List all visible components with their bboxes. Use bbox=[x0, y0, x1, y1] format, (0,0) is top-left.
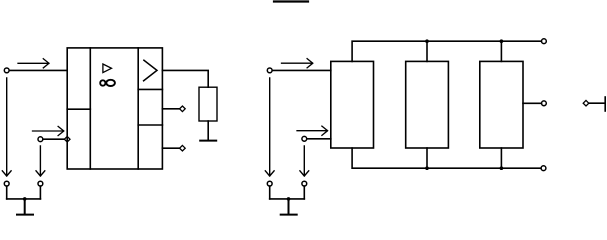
wire top bus bbox=[352, 41, 541, 61]
wire IN2' to T1 bbox=[307, 138, 331, 140]
wire ground bus left bbox=[7, 198, 41, 200]
wire GND2a down bbox=[269, 186, 271, 199]
junction ground left bbox=[23, 197, 27, 201]
capacitor plate (cropped) bbox=[604, 97, 606, 111]
transformer block T2 bbox=[406, 61, 449, 148]
terminal GND1b bbox=[38, 181, 43, 186]
amplifier triangle symbol bbox=[103, 64, 112, 73]
ground symbol R1 bbox=[200, 140, 216, 142]
infinite gain symbol bbox=[100, 80, 115, 86]
wire T3 top drop bbox=[500, 41, 502, 61]
junction T3 bottom bbox=[500, 166, 504, 170]
U1 output column split 1 bbox=[138, 88, 162, 90]
wire U1 out1 to R1 bbox=[162, 70, 208, 87]
wire GND1b down bbox=[39, 186, 41, 199]
junction T2 bottom bbox=[425, 166, 429, 170]
wire IN1' to T1 bbox=[272, 69, 331, 71]
pin diamond U1 input 2 bbox=[64, 136, 70, 142]
terminal GND1a bbox=[4, 181, 9, 186]
wire GND2b down bbox=[303, 186, 305, 199]
U1 divider input column bbox=[89, 48, 91, 169]
wire bottom bus bbox=[352, 148, 541, 168]
comparator chevron symbol bbox=[144, 60, 157, 81]
junction T2 top bbox=[425, 39, 429, 43]
pin diamond far right bbox=[583, 100, 589, 106]
wire IN1 to U1 bbox=[9, 69, 67, 71]
arrow U_in1 bbox=[18, 59, 49, 68]
wire IN2 to U1 diamond bbox=[43, 138, 64, 140]
wire U1 out3 bbox=[162, 147, 179, 149]
wire T2 top drop bbox=[426, 41, 428, 61]
wire U1 out2 bbox=[162, 108, 179, 110]
fraction bar (cropped heading line) bbox=[274, 0, 308, 2]
U1 input column split bbox=[67, 108, 90, 110]
transformer block T1 bbox=[331, 61, 374, 148]
wire IN1 down to ground terminal (with arrow) bbox=[2, 78, 11, 176]
ground symbol right bbox=[281, 199, 297, 215]
terminal IN1 bbox=[4, 68, 9, 73]
pin diamond out2 bbox=[180, 106, 186, 112]
terminal GND2b bbox=[302, 181, 307, 186]
wire IN2 down to ground terminal (with arrow) bbox=[36, 146, 45, 176]
pin diamond out3 bbox=[180, 145, 186, 151]
junction ground right bbox=[287, 197, 291, 201]
resistor R1 bbox=[199, 87, 217, 121]
terminal GND2a bbox=[267, 181, 272, 186]
arrow U_in2' bbox=[297, 126, 328, 135]
terminal IN2 bbox=[38, 137, 43, 142]
transformer block T3 bbox=[480, 61, 523, 148]
ground symbol left bbox=[17, 199, 33, 215]
wire T3 output bbox=[523, 102, 541, 104]
wire R1 to ground bbox=[207, 121, 209, 140]
junction T3 top bbox=[500, 39, 504, 43]
terminal IN1' (right circuit) bbox=[267, 68, 272, 73]
wire IN2' down to ground terminal (with arrow) bbox=[300, 146, 309, 176]
wire T3 bottom drop bbox=[500, 148, 502, 168]
isolation amplifier U1 outline bbox=[67, 48, 162, 169]
U1 divider output column bbox=[137, 48, 139, 169]
U1 output column split 2 bbox=[138, 124, 162, 126]
arrow U_in1' bbox=[282, 59, 313, 68]
arrow U_in2 bbox=[33, 126, 64, 135]
terminal T3 output bbox=[542, 101, 547, 106]
wire far right bbox=[589, 102, 605, 104]
terminal IN2' bbox=[302, 136, 307, 141]
terminal bottom bus bbox=[541, 166, 546, 171]
wire IN1' down to ground terminal (with arrow) bbox=[265, 78, 274, 176]
wire ground bus right bbox=[270, 198, 305, 200]
wire GND1a down bbox=[6, 186, 8, 199]
wire T2 bottom drop bbox=[426, 148, 428, 168]
terminal top bus bbox=[542, 39, 547, 44]
